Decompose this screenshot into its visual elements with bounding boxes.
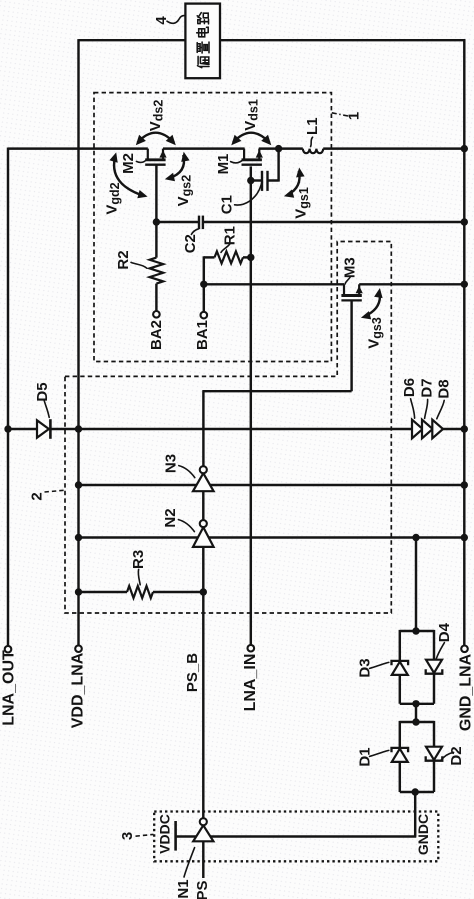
wire GNDC row behind N1 [176, 835, 417, 837]
wire M2 gate line down to R2 [155, 165, 157, 257]
terminal LNA_OUT [5, 646, 12, 653]
wire clamp chain top [415, 538, 417, 632]
wire D5 to VDD rail [50, 428, 78, 430]
transistor M2 [147, 149, 149, 161]
svg-text:D4: D4 [436, 622, 453, 642]
wire N3 input to N2 output [202, 491, 204, 520]
wire R3 row right [153, 591, 203, 593]
wire C1 right stub up to bus [268, 149, 279, 182]
box bias circuit [185, 4, 220, 79]
svg-text:BA1: BA1 [194, 320, 211, 350]
node BA1 junction [200, 281, 207, 288]
transistor M1 [243, 149, 245, 161]
wire BA1 stub [203, 284, 205, 312]
leader for 3 [136, 834, 154, 836]
resistor R2 [150, 258, 164, 284]
diode D6 [412, 420, 423, 439]
inverter N1 [193, 825, 213, 841]
leader for C2 [191, 229, 198, 235]
wire R1 right lead [243, 256, 251, 258]
svg-text:LNA_IN: LNA_IN [242, 654, 259, 712]
node VDD-N2row junction [75, 534, 82, 541]
wire M1 gate line down to LNA_IN [250, 166, 252, 645]
svg-text:L1: L1 [304, 117, 321, 135]
leader for 4 [167, 16, 186, 24]
svg-text:LNA_OUT: LNA_OUT [1, 650, 18, 726]
leader for D2 [441, 752, 454, 760]
svg-text:C1: C1 [218, 195, 235, 214]
text bias circuit label (偏置电路) [198, 56, 210, 67]
wire C2 row left [156, 221, 199, 223]
svg-text:PS: PS [194, 880, 211, 899]
node N2row-GND junction [461, 534, 468, 541]
svg-text:N2: N2 [162, 508, 179, 527]
terminal VDD_LNA [75, 645, 82, 652]
node M2 gate junction [153, 218, 160, 225]
node LNA_OUT-D5 junction [4, 425, 11, 432]
wire R3 row left [79, 591, 128, 593]
svg-text:D2: D2 [448, 746, 465, 765]
wire M3 source to GND rail [359, 283, 465, 285]
transistor M3 [343, 284, 345, 296]
svg-text:PS_B: PS_B [184, 653, 201, 692]
leader for N3 [179, 466, 195, 478]
diode D4 [426, 660, 442, 673]
svg-text:D8: D8 [436, 379, 453, 398]
wire main bus segment LNA_OUT to M2 drain [8, 147, 148, 149]
svg-text:1: 1 [346, 112, 363, 120]
arrow Vds1 [233, 133, 270, 143]
arrow Vgs3 [365, 291, 380, 316]
svg-text:D7: D7 [419, 378, 436, 397]
leader for D1 [370, 750, 389, 756]
svg-text:N3: N3 [163, 454, 180, 473]
box amplifier core (dashed box 1) [94, 93, 331, 362]
wire VDD_LNA rail (vertical) [77, 39, 79, 645]
inverter N3 [193, 473, 214, 491]
node M3row-GND junction [461, 281, 468, 288]
svg-text:N1: N1 [175, 879, 192, 898]
capacitor C1 [261, 171, 263, 191]
wire LNA_OUT line (left vertical) [7, 148, 9, 646]
wire R1 left lead [204, 256, 215, 258]
leader for N1 [184, 848, 195, 877]
capacitor C2 [198, 216, 200, 230]
node bus-GND junction [461, 145, 468, 152]
leader for C1 [235, 182, 262, 205]
leader for D4 [436, 643, 444, 659]
arrow Vgs2 [169, 155, 184, 178]
terminal GND_LNA [461, 646, 468, 653]
terminal LNA_IN [248, 645, 255, 652]
leader for D6 [411, 399, 415, 418]
node M1 gate junction [247, 177, 254, 184]
node clamp pair2 top junction [412, 718, 419, 725]
svg-text:3: 3 [119, 832, 136, 840]
arrow Vgs1 [288, 171, 300, 195]
svg-text:D1: D1 [357, 747, 374, 766]
terminal BA2 [153, 311, 160, 318]
wire D8 to GND rail [442, 428, 466, 430]
node clamp bottom junction [412, 788, 419, 795]
svg-text:R1: R1 [221, 226, 238, 245]
leader for M2 [136, 159, 147, 162]
wire N1 input (PS) [202, 841, 204, 878]
svg-text:VDD_LNA: VDD_LNA [70, 652, 87, 728]
svg-text:D6: D6 [401, 378, 418, 397]
node clamp top junction [412, 627, 419, 634]
node N3row-GND junction [461, 481, 468, 488]
wire top bias line (right segment) [220, 39, 465, 41]
leader for 1 [332, 113, 348, 116]
node N2row branch junction [412, 534, 419, 541]
arrow Vds2 [138, 133, 175, 143]
wire clamp pair1 frame [400, 630, 434, 704]
wire N2 input down to N1 output (PS_B) [202, 547, 204, 818]
svg-text:2: 2 [29, 492, 46, 500]
node clamp pair1 bottom junction [412, 700, 419, 707]
leader for D7 [425, 399, 428, 418]
wire R2 to BA2 [155, 284, 157, 311]
node VDD-N3row junction [75, 481, 82, 488]
wire N3 output line [202, 391, 351, 466]
leader for N2 [178, 520, 194, 532]
svg-text:R3: R3 [130, 550, 147, 569]
node R3-PS_B junction [200, 588, 207, 595]
leader for D5 [44, 401, 49, 418]
svg-text:R2: R2 [115, 250, 132, 269]
leader for R2 [131, 262, 147, 268]
svg-text:GNDC: GNDC [415, 814, 431, 855]
svg-text:M1: M1 [215, 154, 232, 175]
wire main bus segment M1 source to L1 [259, 147, 303, 149]
node D5-VDD junction [75, 425, 82, 432]
leader for R3 [138, 569, 140, 584]
diode D5 [37, 420, 49, 437]
svg-text:M2: M2 [120, 153, 137, 174]
wire clamp link [415, 704, 417, 722]
leader for D3 [370, 662, 389, 668]
node R1 to M1 gate junction [247, 254, 254, 261]
arrow Vgd2 [114, 156, 143, 196]
diode D3 [392, 662, 408, 675]
power bar VDDC [174, 821, 177, 851]
diode D1 [392, 749, 408, 762]
wire BA1 row to M3 drain [204, 283, 344, 285]
terminal BA1 [201, 312, 208, 319]
inverter N2 [193, 527, 214, 547]
node VDD-R3 junction [75, 588, 82, 595]
wire R1 left corner down [203, 256, 205, 284]
box control circuit (dashed box 2) [65, 242, 391, 614]
wire GND rail (right vertical) [463, 39, 465, 645]
svg-text:GND_LNA: GND_LNA [457, 653, 474, 731]
leader for M1 [231, 159, 244, 163]
resistor R1 [215, 251, 244, 263]
wire clamp pair2 frame [400, 721, 434, 792]
diode D7 [422, 420, 433, 439]
wire clamp to GNDC corner [414, 792, 416, 837]
leader for R1 [221, 244, 230, 252]
svg-text:BA2: BA2 [148, 320, 165, 350]
diode D8 [432, 420, 443, 439]
box inverter N1 (dotted box 3) [154, 812, 438, 862]
wire M3 gate line down [350, 301, 352, 391]
svg-text:M3: M3 [341, 257, 358, 278]
leader for M3 [345, 277, 350, 284]
wire D5 row from LNA_OUT line [8, 428, 37, 430]
wire N2 supply row [79, 536, 466, 538]
svg-text:VDDC: VDDC [157, 814, 173, 854]
wire N3 supply row [79, 484, 466, 486]
svg-text:C2: C2 [182, 234, 199, 253]
leader for L1 [311, 137, 313, 146]
diode D2 [426, 747, 442, 760]
inductor L1 [303, 149, 323, 154]
leader for D8 [437, 400, 444, 418]
node D8-GND junction [461, 425, 468, 432]
svg-text:D5: D5 [34, 382, 51, 401]
leader for 2 [45, 490, 65, 492]
svg-text:D3: D3 [357, 658, 374, 677]
node C1-bus junction [275, 145, 282, 152]
wire C1 left stub from M1 gate [251, 179, 262, 181]
wire C2 row right to GND rail [203, 221, 465, 223]
wire top bias line (left segment) [79, 39, 186, 41]
svg-text:4: 4 [153, 16, 170, 25]
wire main bus segment L1 to GND rail [323, 147, 465, 149]
wire D5 row to D6 [79, 428, 413, 430]
wire main bus segment M2 source to M1 drain [163, 147, 245, 149]
resistor R3 [127, 586, 153, 598]
node C2row-GND junction [461, 218, 468, 225]
